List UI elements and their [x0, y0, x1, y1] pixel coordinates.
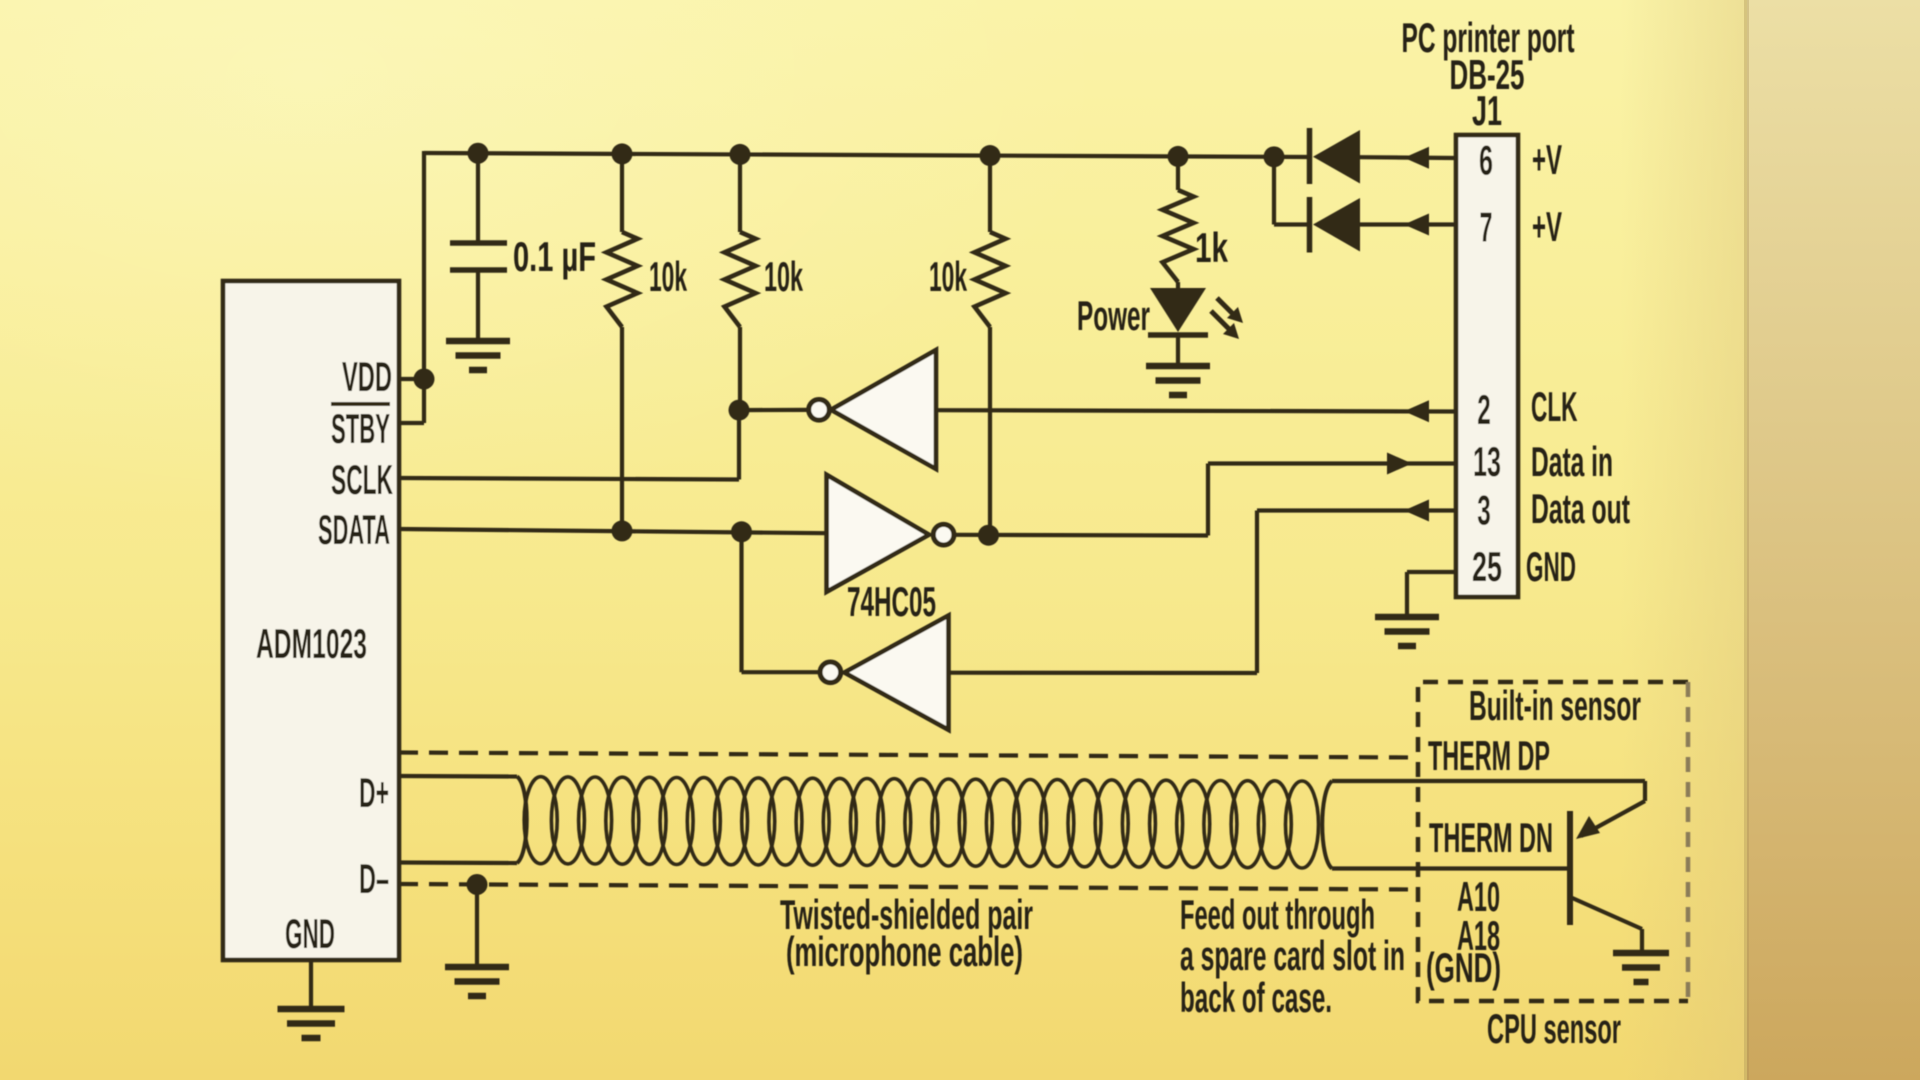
wire THERM DN to base	[1332, 866, 1568, 870]
diode D1	[1307, 128, 1313, 184]
svg-text:GND: GND	[1526, 543, 1576, 590]
node shield ground tap	[467, 874, 488, 895]
wire U2c input	[949, 671, 1258, 675]
svg-text:CLK: CLK	[1531, 383, 1578, 430]
svg-text:Data in: Data in	[1531, 438, 1613, 485]
wire U2c output	[742, 670, 821, 674]
svg-text:10k: 10k	[929, 253, 967, 300]
wire SCLK	[399, 478, 739, 480]
svg-text:J1: J1	[1472, 87, 1502, 134]
resistor R1 10k	[607, 232, 638, 327]
wire R1 bottom lead to SDATA	[620, 327, 624, 531]
wire D- lead	[399, 860, 517, 865]
wire pin 25 ground drop	[1405, 572, 1409, 615]
svg-text:Data out: Data out	[1531, 485, 1630, 532]
arrowhead Data in toward connector	[1387, 453, 1412, 475]
node rail-diode branch	[1264, 146, 1285, 167]
ground below ADM1023	[278, 1009, 345, 1038]
LED emission arrows	[1211, 298, 1233, 329]
svg-text:back of case.: back of case.	[1180, 974, 1332, 1021]
svg-text:Built-in sensor: Built-in sensor	[1469, 682, 1641, 729]
arrowhead into circuit from pin 6	[1404, 147, 1429, 169]
svg-text:+V: +V	[1532, 136, 1562, 183]
wire C1 bottom lead	[476, 272, 480, 339]
svg-text:CPU sensor: CPU sensor	[1487, 1005, 1621, 1052]
resistor R4 1k	[1163, 190, 1194, 282]
wire R2/inverter node to SCLK elbow	[737, 410, 741, 479]
svg-text:ADM1023: ADM1023	[256, 620, 367, 667]
wire CLK from pin 2 to U2a input	[936, 410, 1456, 411]
node inverter1 output / R2	[729, 400, 750, 421]
wire R1 top lead	[620, 154, 624, 232]
svg-text:2: 2	[1477, 386, 1491, 433]
transistor Q1 CPU thermal diode	[1567, 811, 1573, 925]
ground below LED	[1146, 366, 1210, 395]
op-amp/inverter U2c 74HC05 bottom	[844, 616, 948, 730]
wire C1 top lead	[476, 153, 480, 241]
wire U2c output riser to SDATA	[739, 532, 743, 672]
svg-text:13: 13	[1473, 438, 1501, 485]
wire Data out from pin 3	[1257, 508, 1456, 512]
wire VDD riser	[422, 151, 426, 379]
wire shield dashed bottom	[399, 884, 1418, 890]
wire VDD pin stub	[399, 377, 424, 381]
wire R4 to LED	[1176, 282, 1180, 289]
wire shield ground drop	[475, 885, 479, 966]
wire shield dashed top	[399, 753, 1418, 758]
node U2b output / R3	[978, 525, 999, 546]
wire R2 top lead	[738, 154, 742, 232]
op-amp/inverter U2b 74HC05 middle	[827, 475, 929, 592]
ground below J1 pin 25	[1375, 617, 1439, 646]
resistor R3 10k	[975, 232, 1006, 327]
node rail-R2	[730, 144, 751, 165]
wire to D2	[1274, 222, 1307, 226]
node rail-R1	[612, 143, 633, 164]
wire U2b output	[954, 533, 1208, 538]
wire STBY riser	[422, 379, 426, 423]
wire R4 top lead	[1176, 156, 1180, 190]
wire +V supply rail	[424, 153, 1309, 157]
wire STBY pin stub	[399, 421, 424, 425]
node SDATA-R1	[612, 520, 633, 541]
svg-text:GND: GND	[285, 910, 335, 957]
wire D1 to pin 6	[1360, 155, 1456, 160]
svg-text:THERM DN: THERM DN	[1429, 814, 1553, 861]
svg-text:1k: 1k	[1195, 224, 1228, 271]
svg-text:THERM DP: THERM DP	[1428, 732, 1550, 779]
node rail-R4	[1168, 146, 1189, 167]
diode D2	[1307, 197, 1313, 253]
node VDD junction	[414, 369, 435, 390]
CPU sensor dashed box	[1418, 682, 1688, 1001]
wire Q1 collector diagonal	[1570, 897, 1642, 929]
node rail-R3	[980, 145, 1001, 166]
svg-text:(microphone cable): (microphone cable)	[786, 928, 1023, 975]
svg-text:VDD: VDD	[342, 353, 392, 400]
wire Data-out riser	[1255, 511, 1259, 674]
svg-text:SCLK: SCLK	[331, 456, 393, 503]
wire R3 bottom lead	[988, 327, 992, 535]
wire THERM DP	[1332, 779, 1645, 783]
svg-text:Feed out through: Feed out through	[1180, 891, 1375, 938]
STBY overline	[331, 402, 390, 406]
ground below C1	[446, 341, 510, 370]
node SDATA-inverter3	[731, 521, 752, 542]
wire Q1 collector drop	[1640, 929, 1644, 951]
twisted-shielded pair cable right end cap	[1322, 781, 1332, 869]
svg-text:Power: Power	[1077, 292, 1150, 339]
LED D3 Power indicator	[1150, 288, 1206, 332]
wire Data-in riser	[1206, 464, 1210, 536]
wire diode branch drop	[1272, 157, 1276, 225]
svg-text:D+: D+	[359, 769, 389, 816]
wire D2 to pin 7	[1360, 222, 1456, 226]
svg-text:10k: 10k	[649, 253, 687, 300]
svg-text:7: 7	[1480, 204, 1493, 251]
wire Q1 emitter diagonal	[1581, 801, 1645, 836]
wire LED cathode lead	[1176, 337, 1180, 364]
arrowhead CLK into circuit	[1404, 400, 1429, 422]
wire Data in to pin 13	[1208, 461, 1456, 465]
svg-text:0.1 µF: 0.1 µF	[513, 233, 596, 280]
svg-text:3: 3	[1477, 487, 1491, 534]
node rail-C1	[468, 143, 489, 164]
svg-text:SDATA: SDATA	[318, 506, 390, 553]
arrowhead into circuit from pin 7	[1404, 214, 1429, 236]
svg-text:a spare card slot in: a spare card slot in	[1180, 932, 1405, 979]
wire chip GND lead	[309, 960, 313, 1008]
resistor R2 10k	[725, 232, 756, 327]
wire D+ lead	[399, 774, 517, 779]
svg-text:STBY: STBY	[331, 405, 390, 452]
wire U2a output to node	[739, 408, 809, 412]
svg-text:74HC05: 74HC05	[847, 578, 936, 625]
svg-text:(GND): (GND)	[1426, 944, 1501, 991]
capacitor C1 0.1uF	[450, 243, 507, 270]
op-amp/inverter U2a 74HC05 top	[831, 350, 936, 469]
IC U1 ADM1023 body	[223, 281, 399, 960]
svg-text:25: 25	[1472, 543, 1502, 590]
wire SDATA	[399, 529, 827, 533]
connector J1 DB-25 body	[1456, 135, 1518, 597]
wire Q1 emitter drop	[1643, 781, 1647, 801]
svg-text:D–: D–	[359, 855, 389, 902]
svg-text:+V: +V	[1532, 203, 1562, 250]
twisted-shielded pair cable coil	[524, 777, 1318, 868]
svg-text:6: 6	[1479, 137, 1493, 184]
ground below Q1	[1613, 953, 1669, 982]
wire R2 bottom lead	[738, 327, 742, 410]
wire R3 top lead	[988, 156, 992, 232]
wire pin 25 to ground	[1407, 570, 1456, 574]
arrowhead Data out into circuit	[1404, 500, 1429, 522]
twisted-shielded pair cable left end cap	[517, 777, 527, 864]
svg-text:10k: 10k	[764, 253, 803, 300]
ground for cable shield	[445, 967, 509, 996]
